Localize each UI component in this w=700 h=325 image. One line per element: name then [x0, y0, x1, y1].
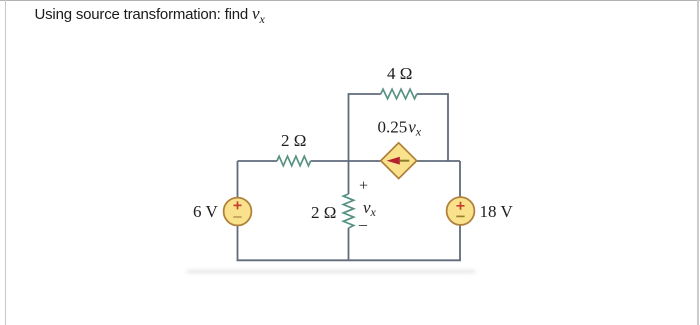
svg-text:4 Ω: 4 Ω [387, 64, 412, 83]
svg-text:2 Ω: 2 Ω [311, 203, 336, 222]
svg-text:2 Ω: 2 Ω [281, 131, 306, 150]
svg-text:+: + [359, 178, 368, 195]
svg-text:18 V: 18 V [480, 202, 514, 221]
svg-text:–: – [358, 217, 368, 234]
svg-text:6 V: 6 V [193, 202, 218, 221]
svg-text:0.25vx: 0.25vx [378, 118, 422, 139]
